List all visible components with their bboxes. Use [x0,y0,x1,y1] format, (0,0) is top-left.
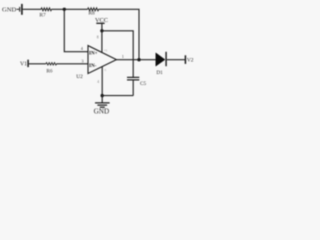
resistor R6 [46,63,57,75]
svg-text:U2: U2 [76,74,83,80]
terminal V1 [20,60,28,68]
ground GND (bottom) [94,96,110,116]
svg-text:IN-: IN- [89,63,97,69]
svg-text:-5: -5 [103,68,106,72]
svg-text:R7: R7 [39,13,46,19]
svg-text:C5: C5 [140,81,146,87]
svg-text:GND: GND [2,7,17,14]
svg-text:V1: V1 [20,62,27,68]
svg-text:R6: R6 [46,69,52,75]
svg-text:8: 8 [97,36,99,40]
resistor R8 [88,8,99,16]
node ground junction [101,94,104,97]
op-amp U2 [76,46,116,80]
svg-text:GND: GND [94,107,110,115]
power port VCC [95,17,108,31]
node VCC junction [100,29,103,32]
node junction top (R7/R8/inverting branch) [63,8,66,11]
wire ground rail to capacitor [102,95,133,97]
wire R6 to op-amp pin 3 [57,63,89,65]
svg-text:+5: +5 [104,49,108,53]
capacitor C5 [127,77,146,95]
power port GND (top-left) [2,4,22,15]
diode D1 [156,52,166,76]
wire diode to V2 [167,59,186,61]
wire R8 to top-right corner and down to output node [99,9,139,59]
svg-text:IN+: IN+ [89,50,98,56]
wire V1 to R6 [29,63,46,65]
svg-text:R8: R8 [88,10,95,16]
wire GND to R7 [23,8,41,10]
svg-text:V2: V2 [187,57,194,63]
resistor R7 [39,8,51,19]
svg-text:1: 1 [122,54,124,59]
wire op-amp output to diode [116,59,155,61]
wire junction down to op-amp pin 4 [64,9,88,51]
svg-text:D1: D1 [156,70,163,76]
wire VCC junction down to op-amp pin 8 [101,31,103,53]
wire VCC rail to corner and down to capacitor (crosses output wire) [102,31,133,77]
svg-text:4: 4 [97,80,99,84]
wire R7 to R8 [52,8,88,10]
terminal V2 [185,55,193,64]
wire op-amp bottom pin to ground junction [101,66,103,95]
node output junction (R8 pull-up meets output) [137,58,140,61]
